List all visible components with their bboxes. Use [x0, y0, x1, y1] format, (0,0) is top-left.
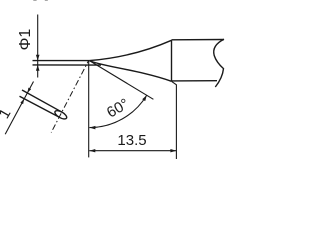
- right extension line: [172, 82, 177, 159]
- phi1 dimension vertical line: [37, 15, 39, 78]
- center dash-dot line: [51, 61, 88, 133]
- svg-text:1: 1: [0, 106, 14, 122]
- cylinder bottom edge: [172, 80, 218, 82]
- svg-text:Φ1: Φ1: [17, 29, 34, 51]
- flare top contour: [89, 40, 171, 60]
- break line S-curve: [214, 39, 224, 87]
- flare bottom contour: [89, 61, 171, 82]
- tip bottom edge: [33, 64, 102, 66]
- svg-text:60°: 60°: [104, 95, 132, 121]
- arrow phi1 lower: [36, 65, 40, 71]
- arrow detail dim upper: [27, 88, 31, 93]
- dimension line 13.5: [89, 150, 176, 152]
- dimension line 1 diagonal: [5, 82, 33, 135]
- arrow 13.5 right: [170, 149, 176, 152]
- clipped text remnant right: [45, 0, 48, 1]
- angle arc 60 degrees: [89, 95, 146, 128]
- joint vertical line: [171, 40, 173, 81]
- detail cylinder top edge: [22, 90, 62, 112]
- arrow detail dim lower: [20, 99, 24, 104]
- clipped text remnant left: [33, 0, 36, 1]
- detail cylinder bottom edge: [20, 96, 60, 117]
- arrow 13.5 left: [89, 149, 95, 152]
- arrow arc right end: [142, 95, 147, 101]
- 60-degree leg line: [89, 61, 153, 100]
- cylinder top edge: [172, 39, 225, 41]
- svg-text:13.5: 13.5: [117, 132, 146, 149]
- vertical extension line from bend: [88, 61, 90, 157]
- arrow phi1 upper: [36, 55, 40, 61]
- detail tip face ellipse: [54, 109, 68, 121]
- arrow arc left end: [89, 126, 95, 129]
- tip top edge: [33, 60, 90, 62]
